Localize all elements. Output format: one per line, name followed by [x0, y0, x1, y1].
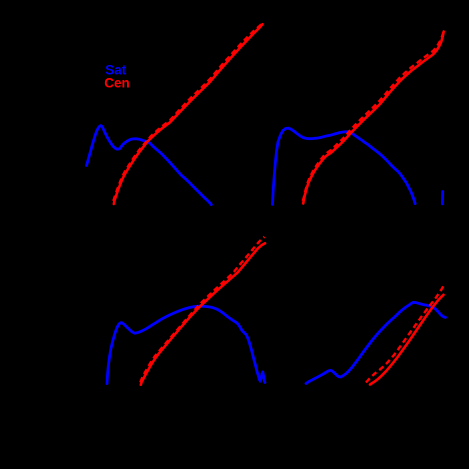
panel 4 red solid central curve [370, 295, 444, 385]
panel 4 blue satellite curve [306, 302, 446, 383]
panel 3 red dashed central curve [140, 237, 264, 382]
svg-text:Cen: Cen [104, 76, 130, 91]
panel 1 red solid central curve [114, 24, 263, 204]
panel 2 red solid central curve [303, 32, 444, 204]
panel 2 blue satellite curve [273, 128, 416, 204]
panel 1 red dashed central curve [113, 23, 262, 201]
panel 3 red solid central curve [141, 243, 265, 384]
panel 2 red dashed central curve [303, 32, 444, 202]
panel 1 blue satellite curve [87, 126, 212, 205]
panel 3 blue satellite curve [107, 306, 265, 383]
panel 4 red dashed central curve [366, 285, 444, 383]
panel 2 blue right-edge tick [441, 192, 444, 204]
